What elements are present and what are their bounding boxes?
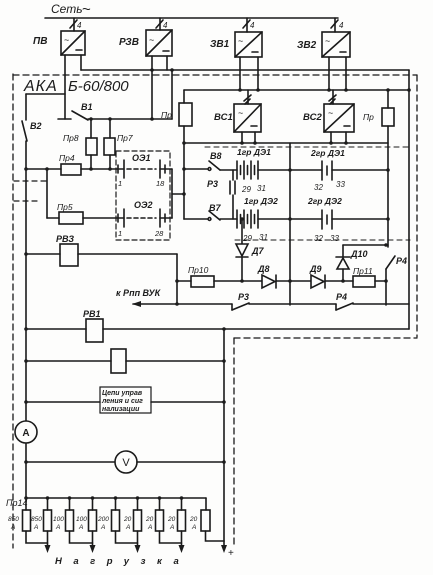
svg-text:~: ~ xyxy=(82,1,91,18)
svg-text:ЗВ1: ЗВ1 xyxy=(210,39,230,50)
svg-text:ЗВ2: ЗВ2 xyxy=(297,40,317,51)
svg-text:ВС1: ВС1 xyxy=(214,112,233,123)
switch В2 xyxy=(22,121,42,141)
wire y94 branch xyxy=(26,93,65,95)
svg-text:32: 32 xyxy=(314,234,323,243)
svg-text:31: 31 xyxy=(257,184,266,193)
arrow load rail with plus xyxy=(221,541,234,559)
wire ПВ right stub xyxy=(80,55,82,70)
svg-text:2гр ДЭ1: 2гр ДЭ1 xyxy=(310,148,345,158)
diode Д10 xyxy=(336,245,368,281)
svg-text:4: 4 xyxy=(339,21,344,30)
box Цепи управления и сигнализации xyxy=(26,387,224,413)
wire load outputs pair 4 xyxy=(160,531,185,553)
svg-text:ОЭ2: ОЭ2 xyxy=(134,200,152,210)
wire load rail x224 xyxy=(223,329,225,541)
svg-text:Р3: Р3 xyxy=(207,179,218,189)
arrow к Рпп ВУК xyxy=(116,288,177,307)
svg-text:А: А xyxy=(100,524,105,531)
svg-text:Цепи управ: Цепи управ xyxy=(102,390,143,397)
wire load outputs pair 3 xyxy=(116,531,141,553)
svg-text:ления и сиг: ления и сиг xyxy=(101,398,143,405)
svg-text:100: 100 xyxy=(53,516,64,523)
svg-text:Сеть: Сеть xyxy=(51,2,83,16)
svg-text:РЗВ: РЗВ xyxy=(119,37,139,48)
svg-text:Р4: Р4 xyxy=(396,256,407,266)
fuse Пр14-3 100А xyxy=(53,498,74,531)
svg-text:Пр: Пр xyxy=(161,110,172,120)
wire mains bus xyxy=(45,17,338,19)
relay РВ3 xyxy=(26,234,177,266)
contact Р3 link xyxy=(207,170,235,219)
fuse Пр14-7 20А xyxy=(145,498,164,531)
wire В1 output xyxy=(88,118,172,120)
label Пр14 xyxy=(6,498,28,508)
fuse Пр14-8 20А xyxy=(167,498,186,531)
svg-text:+: + xyxy=(228,548,234,559)
fuse Пр14-5 200А xyxy=(97,498,120,531)
label АКА Б-60/800 xyxy=(23,78,129,95)
svg-text:20: 20 xyxy=(123,516,132,523)
wire РЗВ left stub xyxy=(151,56,153,119)
svg-text:к Рпп ВУК: к Рпп ВУК xyxy=(116,288,162,298)
svg-text:18: 18 xyxy=(156,179,165,188)
fuse Пр4 xyxy=(26,153,118,175)
wire right battery rail lower xyxy=(385,269,387,305)
svg-text:В8: В8 xyxy=(210,151,222,161)
svg-text:Д10: Д10 xyxy=(350,249,368,259)
svg-text:В2: В2 xyxy=(30,121,42,131)
wire load outputs pair 2 xyxy=(70,531,96,553)
svg-text:Пр10: Пр10 xyxy=(188,265,209,275)
battery box dashed top xyxy=(205,146,410,148)
svg-text:Пр11: Пр11 xyxy=(353,266,373,276)
fuse Пр5 xyxy=(47,202,118,224)
svg-text:20: 20 xyxy=(145,516,154,523)
wire left bus upper xyxy=(25,94,27,120)
wire right battery rail x388 xyxy=(387,126,389,247)
svg-text:В7: В7 xyxy=(209,203,221,213)
svg-text:АКА: АКА xyxy=(23,78,58,95)
svg-text:В1: В1 xyxy=(81,102,93,112)
svg-text:А: А xyxy=(33,524,38,531)
svg-text:ОЭ1: ОЭ1 xyxy=(132,153,150,163)
fuse Пр8 xyxy=(63,119,97,169)
wire drop to РЗВ with 4-wire mark xyxy=(156,18,168,30)
wire center rail x290 xyxy=(289,143,291,305)
svg-text:2гр ДЭ2: 2гр ДЭ2 xyxy=(307,196,342,206)
wire Д10 jumper xyxy=(343,244,388,246)
wire rail x172 mid xyxy=(171,169,173,218)
svg-text:200: 200 xyxy=(97,516,109,523)
diode Д8 xyxy=(257,264,311,288)
svg-text:~: ~ xyxy=(238,108,243,118)
fuse Пр14-4 100А xyxy=(76,498,97,531)
svg-text:1: 1 xyxy=(118,179,122,188)
wire ВС bottom y143 xyxy=(184,142,388,144)
fuse Пр14-6 20А xyxy=(123,498,142,531)
mechanical dashed link upper xyxy=(14,180,48,182)
svg-text:100: 100 xyxy=(76,516,87,523)
svg-text:ПВ: ПВ xyxy=(33,36,47,47)
dashed box ОЭ xyxy=(116,151,170,240)
fuse Пр10 xyxy=(177,265,262,287)
svg-text:нализации: нализации xyxy=(102,406,140,413)
wire drop to ЗВ2 with 4-wire mark xyxy=(331,18,344,32)
svg-text:20: 20 xyxy=(167,516,176,523)
relay РВ1 xyxy=(26,309,409,342)
svg-text:А: А xyxy=(191,524,196,531)
label 1гр ДЭ1 xyxy=(237,147,271,157)
svg-text:28: 28 xyxy=(154,229,164,238)
svg-text:~: ~ xyxy=(328,108,333,118)
svg-text:~: ~ xyxy=(64,35,69,45)
svg-text:31: 31 xyxy=(259,233,268,242)
svg-text:А: А xyxy=(169,524,174,531)
fuse Пр right xyxy=(363,90,394,126)
converter ВС2 xyxy=(303,90,354,143)
fuse Пр14-9 20А xyxy=(189,510,210,531)
svg-text:А: А xyxy=(78,524,83,531)
wire x177 drop xyxy=(176,254,178,304)
svg-text:Р4: Р4 xyxy=(336,292,347,302)
svg-text:А: А xyxy=(10,524,15,531)
wire x47 link xyxy=(46,169,48,218)
svg-text:ВС2: ВС2 xyxy=(303,112,322,123)
fuse Пр14-1 850А xyxy=(8,498,31,531)
battery 2гр ДЭ2 cells xyxy=(290,210,388,243)
wire РЗВ right stub xyxy=(166,56,168,70)
wire right rail x409 xyxy=(408,70,410,329)
wire drop to ПВ with 4-wire mark xyxy=(70,18,82,31)
label 1гр ДЭ2 xyxy=(244,196,278,206)
svg-text:Пр14: Пр14 xyxy=(6,498,28,508)
svg-text:~: ~ xyxy=(149,35,154,45)
label Нагрузка xyxy=(55,556,190,567)
svg-text:1гр ДЭ1: 1гр ДЭ1 xyxy=(237,147,271,157)
svg-text:Р3: Р3 xyxy=(238,292,249,302)
svg-text:А: А xyxy=(147,524,152,531)
svg-text:Пр8: Пр8 xyxy=(63,133,79,143)
svg-text:20: 20 xyxy=(189,516,198,523)
svg-text:V: V xyxy=(122,457,130,469)
battery 2гр ДЭ1 cells xyxy=(290,161,388,192)
switch В7 xyxy=(184,203,221,220)
svg-text:29: 29 xyxy=(241,185,251,194)
converter РЗВ xyxy=(119,30,172,56)
svg-text:~: ~ xyxy=(325,36,330,46)
converter ЗВ1 xyxy=(210,32,262,57)
switch В1 xyxy=(58,102,93,120)
svg-text:33: 33 xyxy=(330,234,339,243)
fuse Пр left xyxy=(161,90,192,126)
svg-text:Д9: Д9 xyxy=(309,264,322,274)
fuse Пр14-2 850А xyxy=(31,498,52,531)
svg-text:Д8: Д8 xyxy=(257,264,270,274)
svg-text:1: 1 xyxy=(118,229,122,238)
svg-text:А: А xyxy=(55,524,60,531)
svg-text:33: 33 xyxy=(336,180,345,189)
svg-text:~: ~ xyxy=(238,36,243,46)
ammeter А xyxy=(15,421,37,443)
fuse Пр7 xyxy=(104,119,133,169)
svg-text:850: 850 xyxy=(31,516,42,523)
wire x172 upper link xyxy=(171,70,173,119)
mechanical dashed link lower xyxy=(14,200,37,202)
svg-text:А: А xyxy=(22,428,29,439)
svg-text:850: 850 xyxy=(8,516,19,523)
switch Р4 blade xyxy=(386,256,407,269)
unit dashed border АКАБ xyxy=(13,74,417,548)
converter ЗВ2 xyxy=(297,32,350,57)
battery box dashed bottom xyxy=(235,239,410,241)
diode Д7 xyxy=(236,219,264,281)
wire x184 rail xyxy=(183,126,185,219)
svg-text:Д7: Д7 xyxy=(251,246,264,256)
wire top horizontal y70 xyxy=(81,69,409,71)
svg-text:1гр ДЭ2: 1гр ДЭ2 xyxy=(244,196,278,206)
voltmeter V xyxy=(26,451,224,473)
svg-text:Пр5: Пр5 xyxy=(57,202,73,212)
converter ПВ xyxy=(33,31,85,55)
wire fuse bus y498 xyxy=(26,498,206,510)
wire control bus y305 with contacts xyxy=(177,292,409,310)
fuse Пр11 xyxy=(353,266,386,287)
wire left bus main xyxy=(25,141,27,498)
wire ЗВ1 stubs xyxy=(240,57,258,90)
wire ВС supply y90 xyxy=(184,89,409,91)
battery 1гр ДЭ2 cells xyxy=(220,210,290,243)
diode Д9 xyxy=(309,264,353,288)
wire ПВ left stub xyxy=(64,55,66,119)
svg-text:29: 29 xyxy=(242,234,252,243)
svg-text:А: А xyxy=(125,524,130,531)
electromagnet ОЭ2 xyxy=(118,200,172,238)
svg-text:4: 4 xyxy=(77,21,82,30)
wire ЗВ2 stubs xyxy=(329,57,346,90)
battery 1гр ДЭ1 cells xyxy=(220,161,290,194)
label 2гр ДЭ1 xyxy=(310,148,345,158)
svg-text:32: 32 xyxy=(314,183,323,192)
svg-text:РВЗ: РВЗ xyxy=(56,234,74,244)
switch В8 xyxy=(184,151,222,170)
wire load outputs pair 1 xyxy=(26,531,51,553)
svg-text:Пр4: Пр4 xyxy=(59,153,75,163)
svg-text:Б-60/800: Б-60/800 xyxy=(68,78,129,95)
electromagnet ОЭ1 xyxy=(118,153,172,188)
svg-text:4: 4 xyxy=(163,21,168,30)
svg-text:РВ1: РВ1 xyxy=(83,309,101,319)
wire drop to ЗВ1 with 4-wire mark xyxy=(243,18,255,32)
svg-text:4: 4 xyxy=(250,21,255,30)
relay РВ2 xyxy=(26,349,224,373)
svg-text:Пр: Пр xyxy=(363,112,374,122)
wire branch y194 xyxy=(172,193,184,195)
converter ВС1 xyxy=(214,90,261,143)
svg-text:Нагрузка: Нагрузка xyxy=(55,556,190,567)
label 2гр ДЭ2 xyxy=(307,196,342,206)
wire load output last fuse to rail xyxy=(206,531,225,541)
svg-text:Пр7: Пр7 xyxy=(117,133,133,143)
net Сеть label xyxy=(51,1,91,18)
